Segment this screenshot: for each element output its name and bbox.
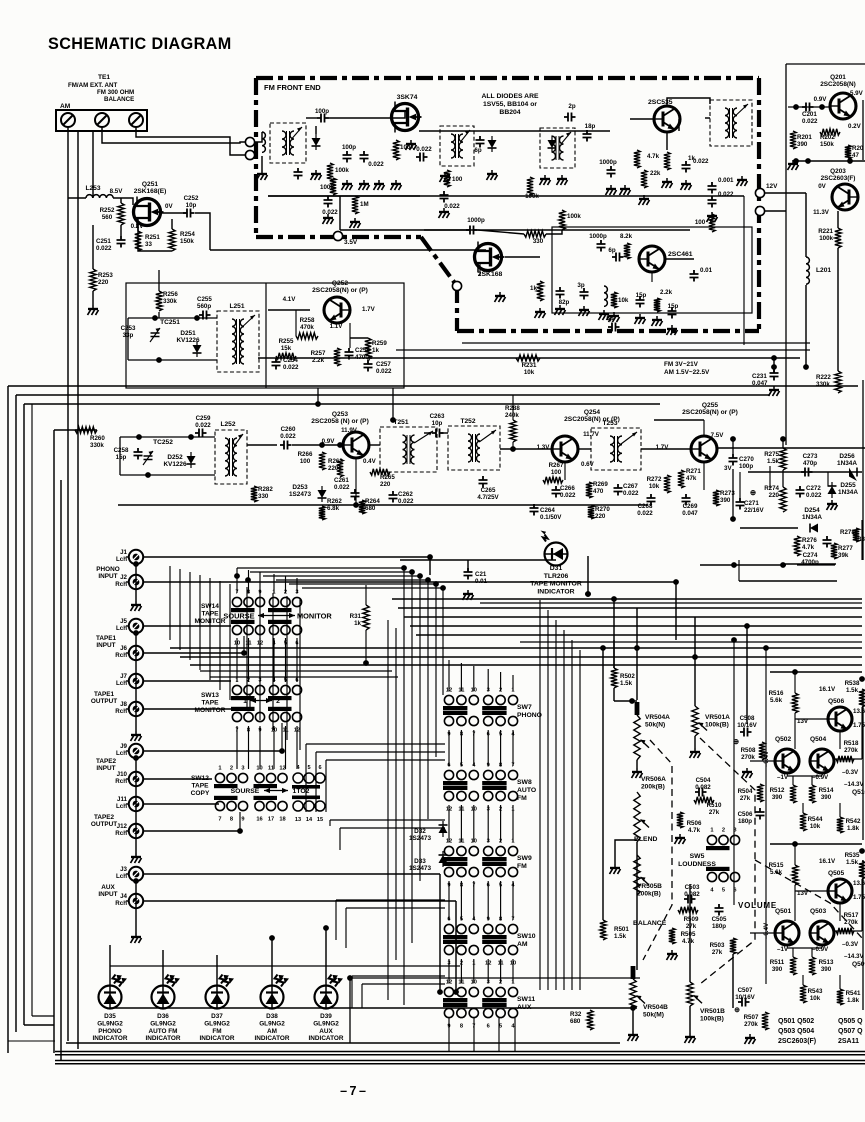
label VR504A: [645, 714, 670, 728]
svg-text:0.022: 0.022: [806, 492, 822, 499]
label 16.1V Q506: [819, 686, 836, 693]
svg-text:0.022: 0.022: [802, 118, 818, 125]
svg-text:220: 220: [769, 492, 780, 499]
coil L201: [806, 257, 809, 284]
gang dash VR504: [643, 740, 672, 960]
junction: [323, 925, 329, 931]
wire D35 top: [109, 945, 111, 986]
wire t253 to q255: [641, 448, 691, 450]
label R266v: [300, 458, 311, 465]
wire sw8-sw9: [487, 805, 489, 842]
label 1.3V: [537, 444, 551, 451]
svg-text:–0.3V: –0.3V: [842, 941, 859, 948]
svg-text:0.022: 0.022: [368, 161, 384, 168]
label C506: [738, 811, 753, 825]
wire j9-j12: [135, 758, 137, 853]
wire tc252 left: [119, 437, 121, 475]
label R518: [844, 740, 859, 754]
label 15p b: [668, 303, 679, 310]
capacitor tuning C: [294, 168, 303, 180]
svg-text:330: 330: [258, 493, 269, 500]
svg-text:3V: 3V: [724, 465, 732, 472]
label amp types R: [838, 1018, 863, 1045]
wire r256 bot: [158, 312, 160, 318]
capacitor C 15p b: [668, 307, 677, 319]
svg-text:VR505B: VR505B: [637, 883, 662, 890]
junction: [805, 158, 811, 164]
svg-text:D256: D256: [839, 453, 855, 460]
svg-text:3: 3: [241, 766, 244, 772]
svg-text:C231: C231: [752, 373, 767, 380]
transistor Q201: [830, 93, 856, 119]
wire sw14 pin up: [296, 578, 298, 593]
svg-text:R282: R282: [258, 486, 273, 493]
svg-text:TC251: TC251: [160, 319, 180, 326]
resistor R274: [780, 487, 786, 512]
label VR504B: [643, 1004, 668, 1018]
wire mix bus0: [539, 600, 541, 990]
wire sw9-sw10: [473, 881, 475, 920]
resistor R 4.7k fm: [634, 150, 640, 168]
ground gnd d255: [827, 500, 838, 510]
transformer antenna coil: [270, 123, 306, 163]
wire to 330: [478, 230, 524, 234]
wire sw bus v2: [189, 572, 191, 660]
label J8: [115, 701, 127, 715]
capacitor C270: [729, 454, 738, 466]
wire vr504a bot: [636, 760, 638, 768]
wire swlink h: [362, 983, 445, 985]
svg-text:GL9NG2: GL9NG2: [259, 1020, 285, 1027]
arrow sw13: [250, 698, 272, 703]
wire r512 top: [792, 948, 794, 957]
svg-text:⊕: ⊕: [734, 1007, 740, 1014]
svg-text:330k: 330k: [163, 298, 177, 305]
wire sw bus v11: [299, 599, 301, 750]
svg-text:Q502: Q502: [775, 736, 791, 743]
ground gnd j12: [131, 853, 142, 863]
resistor R269: [586, 482, 592, 498]
wire mix bus1: [547, 610, 549, 990]
wire 2sc535 base: [630, 118, 654, 120]
svg-text:R31: R31: [350, 613, 362, 620]
label 2SC461: [668, 251, 693, 258]
svg-text:OUTPUT: OUTPUT: [91, 698, 117, 705]
wire 12V b: [765, 210, 786, 212]
svg-text:0.6V: 0.6V: [581, 461, 595, 468]
switch row SW11 bottom: [443, 1003, 518, 1030]
wire 2sc535 in: [678, 119, 680, 131]
wire sw7-sw8: [487, 730, 489, 766]
label C261bv: [334, 484, 350, 491]
label C261b: [334, 477, 349, 484]
resistor R 1k fm: [664, 152, 670, 170]
label R201: [797, 134, 812, 141]
svg-text:16.1V: 16.1V: [819, 686, 836, 693]
label R512: [770, 787, 785, 801]
label R221: [818, 228, 833, 235]
wire sw7 feed: [460, 663, 462, 691]
svg-text:R541: R541: [846, 990, 861, 997]
label 1.7V: [362, 306, 376, 313]
wire q252 divider: [265, 283, 267, 388]
label VR505B: [637, 883, 662, 897]
svg-text:5: 5: [722, 888, 725, 894]
label R512: [770, 959, 785, 973]
wire bus h3: [24, 403, 660, 405]
label 100k mid: [567, 213, 581, 220]
svg-text:R508: R508: [741, 747, 756, 754]
svg-text:0.022: 0.022: [334, 484, 350, 491]
wire swlink v: [329, 820, 331, 826]
svg-text:0.022: 0.022: [322, 209, 338, 216]
wire D37 top: [216, 955, 218, 986]
wire j6 up: [243, 636, 245, 653]
label TAPE1 OUTPUT: [91, 691, 117, 705]
label 2SK168: [478, 271, 503, 278]
label C274: [803, 552, 818, 559]
label C257v: [376, 368, 392, 375]
wire sw feed drop: [442, 588, 444, 695]
node antenna2: [245, 150, 254, 159]
wire D38 top: [271, 938, 273, 986]
capacitor C265: [479, 476, 488, 488]
wire q254 to t253: [578, 448, 591, 450]
wire r254 a: [171, 219, 173, 229]
capacitor C256: [345, 348, 354, 360]
potentiometer VR501A: [692, 706, 707, 736]
resistor R506: [677, 812, 683, 828]
svg-text:Rch: Rch: [115, 830, 127, 837]
svg-text:10k: 10k: [649, 483, 660, 490]
wire right edge: [862, 100, 864, 160]
svg-text:VR506A: VR506A: [641, 776, 666, 783]
switch row SW14 bottom: [231, 620, 302, 647]
wire D39 top: [325, 928, 327, 986]
svg-text:PHONO: PHONO: [96, 566, 119, 573]
capacitor C 0.022 g2: [416, 153, 428, 162]
junction: [133, 755, 139, 761]
svg-text:27k: 27k: [709, 809, 720, 816]
svg-text:D39: D39: [320, 1013, 332, 1020]
svg-text:0.022: 0.022: [623, 490, 639, 497]
svg-text:390: 390: [821, 966, 832, 973]
svg-text:0.022: 0.022: [96, 245, 112, 252]
svg-text:13: 13: [295, 817, 301, 823]
capacitor C 100p b: [343, 151, 352, 163]
svg-text:C273: C273: [803, 453, 818, 460]
label R502v: [620, 680, 633, 687]
ground gnd l: [639, 195, 650, 205]
wire det frame v: [738, 560, 740, 581]
resistor RR544: [800, 813, 806, 831]
svg-text:TAPE: TAPE: [201, 699, 219, 706]
junction: [793, 158, 799, 164]
wire sw13-sw12: [236, 726, 238, 769]
wire jack out: [143, 830, 240, 832]
gang dash VR501 tail: [755, 860, 862, 938]
svg-text:1.8k: 1.8k: [847, 825, 860, 832]
wire 12V: [765, 192, 806, 194]
wire jack out: [143, 625, 231, 627]
svg-text:R517: R517: [844, 912, 859, 919]
label R251v: [145, 241, 152, 248]
label C264: [540, 507, 555, 514]
label C270v: [739, 463, 753, 470]
junction: [730, 436, 736, 442]
wire led box top: [350, 977, 640, 979]
trimmer TC251: [150, 328, 160, 342]
junction: [611, 596, 617, 602]
svg-text:R276: R276: [802, 537, 817, 544]
wire swlink h: [336, 899, 445, 901]
label D256: [837, 453, 857, 467]
svg-text:Q253: Q253: [332, 411, 348, 418]
svg-text:R544: R544: [808, 816, 823, 823]
wire d255 top: [827, 472, 829, 486]
label 1000p fm: [599, 159, 617, 166]
label 1k fm: [688, 155, 695, 162]
junction: [136, 434, 142, 440]
label R274v: [769, 492, 780, 499]
wire r502 top: [613, 640, 615, 668]
label C265: [481, 487, 496, 494]
LED D31 TLR206: [541, 531, 568, 566]
label R269: [593, 481, 608, 488]
wire tc252 top: [120, 436, 215, 438]
svg-text:270k: 270k: [741, 754, 755, 761]
svg-text:SW13: SW13: [201, 692, 219, 699]
wire vr501a bot: [694, 736, 696, 748]
svg-text:18: 18: [279, 817, 285, 823]
svg-text:GL9NG2: GL9NG2: [313, 1020, 339, 1027]
svg-text:BALANCE: BALANCE: [104, 96, 134, 103]
label R53x: [845, 680, 860, 694]
svg-text:R507: R507: [744, 1014, 759, 1021]
resistor RR514: [809, 785, 815, 803]
wire r288 top: [512, 395, 514, 420]
svg-text:39k: 39k: [838, 552, 849, 559]
svg-text:1TO2: 1TO2: [293, 788, 310, 795]
label R51x: [769, 862, 784, 876]
arrow sw14: [258, 613, 295, 618]
svg-text:Rch: Rch: [115, 900, 127, 907]
wire right edge det: [861, 520, 863, 560]
junction: [234, 573, 240, 579]
label D35: [93, 1013, 128, 1042]
switch row SW7 bottom: [443, 711, 518, 738]
label -1V: [777, 774, 789, 781]
wire swlink v: [325, 760, 327, 812]
label sw13 n1: [243, 698, 247, 705]
wire amp feed v2: [765, 648, 767, 984]
switch row SW12 top: [214, 766, 287, 789]
resistor R258: [296, 333, 318, 339]
label SW11: [517, 996, 535, 1011]
capacitor C257: [364, 360, 373, 372]
label 4.7k: [647, 153, 660, 160]
ground gnd t: [535, 308, 546, 318]
transformer T251: [380, 427, 437, 472]
wire l253 out: [113, 198, 133, 205]
diode D251: [193, 341, 202, 357]
label R253v: [98, 279, 109, 286]
wire sw7 feed: [512, 675, 514, 691]
resistor R 330: [524, 231, 546, 237]
label 6p osc: [608, 247, 615, 254]
wire sw11 drop: [448, 1018, 450, 1052]
wire bus vleft3: [23, 404, 25, 1025]
transistor Q 2SK168b: [475, 242, 505, 273]
wire bus mid0: [392, 598, 862, 600]
label C254: [283, 357, 298, 364]
svg-text:390: 390: [821, 794, 832, 801]
resistor R288: [510, 420, 516, 442]
svg-text:R271: R271: [686, 468, 701, 475]
svg-text:R32: R32: [570, 1011, 582, 1018]
svg-text:R274: R274: [764, 485, 779, 492]
label D253: [289, 484, 311, 498]
junction: [417, 573, 423, 579]
svg-text:J8: J8: [120, 701, 127, 708]
wire c231: [773, 358, 775, 373]
svg-text:Rch: Rch: [115, 778, 127, 785]
wire c201 row: [788, 106, 830, 108]
junction: [353, 502, 359, 508]
junction: [427, 554, 433, 560]
svg-text:200k(B): 200k(B): [641, 783, 665, 790]
resistor RR517: [836, 928, 854, 934]
svg-text:100p: 100p: [315, 108, 329, 115]
label 1.1V: [330, 323, 344, 330]
wire bus mid1: [398, 607, 862, 609]
wire bus mid low1: [200, 670, 392, 672]
junction: [269, 935, 275, 941]
capacitor C271: [736, 498, 745, 510]
wire ext ant to FM box: [102, 127, 249, 143]
wire q203 e: [837, 211, 839, 228]
resistor RR542: [837, 817, 843, 833]
wire r274 link: [769, 466, 771, 488]
label SW9: [517, 855, 532, 870]
label J6: [115, 645, 127, 659]
label 0.2V: [848, 123, 862, 130]
wire sw11 drop: [473, 1018, 475, 1052]
ground gnd vr504a: [632, 768, 643, 778]
capacitor C263: [432, 429, 444, 438]
ground gnd e: [406, 140, 417, 150]
label 13.6V: [853, 708, 865, 715]
label C271v: [744, 507, 764, 514]
FM front end border: [256, 78, 759, 331]
wire sw14 pin up: [285, 576, 287, 593]
wire t251 to c263: [424, 432, 431, 434]
svg-text:47k: 47k: [686, 475, 697, 482]
label J7: [116, 673, 128, 687]
label 0.022 a: [368, 161, 384, 168]
junction: [145, 472, 151, 478]
ground gnd ant: [257, 170, 268, 180]
svg-text:10k: 10k: [524, 369, 535, 376]
junction: [315, 401, 321, 407]
svg-text:15p: 15p: [636, 292, 647, 299]
label R203: [852, 145, 864, 152]
svg-text:MONITOR: MONITOR: [297, 612, 332, 621]
amp section border: [786, 64, 865, 445]
wire r288 bot: [512, 442, 514, 449]
label R258: [300, 317, 315, 324]
svg-text:C264: C264: [540, 507, 555, 514]
svg-text:R514: R514: [819, 787, 834, 794]
wire fm right drop: [743, 196, 745, 345]
wire bottom corner: [8, 1040, 55, 1042]
wire q506 base: [795, 718, 828, 720]
wire right edge: [862, 860, 864, 1010]
label C268v: [637, 510, 653, 517]
jack J12: [126, 824, 143, 838]
svg-text:0V: 0V: [165, 203, 173, 210]
label Q510: [852, 961, 865, 968]
wire swlink h: [326, 759, 445, 761]
label R277: [838, 545, 853, 552]
label AM: [60, 103, 71, 110]
label 1000p osc: [589, 233, 607, 240]
label T251: [393, 419, 408, 426]
label SW12: [191, 775, 210, 797]
svg-text:2: 2: [230, 766, 233, 772]
label Q255: [682, 402, 738, 416]
wire bus mid3: [410, 625, 862, 627]
jack J6: [126, 646, 143, 660]
diode D253: [318, 486, 327, 502]
wire bus vleft4: [53, 430, 55, 1053]
resistor R501: [600, 920, 606, 940]
capacitor C503: [684, 895, 696, 904]
junction: [347, 975, 353, 981]
wire 330 out: [546, 230, 562, 234]
svg-text:TAPE2: TAPE2: [94, 814, 115, 821]
label C256v: [355, 354, 373, 361]
wire var1: [315, 126, 317, 134]
resistor RR515: [792, 865, 798, 885]
junction: [440, 585, 446, 591]
junction: [630, 1005, 636, 1011]
svg-text:TAPE2: TAPE2: [96, 758, 117, 765]
label R269v: [593, 488, 604, 495]
label Q501: [775, 908, 791, 915]
ground gnd d: [391, 180, 402, 190]
label 0.022 g2: [416, 146, 432, 153]
label D32: [409, 828, 431, 842]
capacitor C 100p: [317, 114, 329, 123]
svg-text:OUTPUT: OUTPUT: [91, 821, 117, 828]
wire q251 out: [161, 212, 187, 214]
jack J10: [126, 772, 143, 786]
label D38: [255, 1013, 290, 1042]
wire 1000p lead: [424, 229, 470, 231]
jack J5: [126, 619, 143, 633]
wire vr501a tap: [694, 617, 696, 706]
label sw12 1to2: [293, 788, 310, 795]
svg-text:10k: 10k: [618, 297, 629, 304]
node fm-b: [452, 281, 461, 290]
resistor R201: [790, 131, 796, 149]
wire t4: [705, 117, 710, 119]
label J12: [115, 823, 127, 837]
svg-text:AUTO: AUTO: [517, 787, 536, 794]
diode D254: [810, 524, 818, 533]
wire c252 out: [195, 213, 210, 250]
